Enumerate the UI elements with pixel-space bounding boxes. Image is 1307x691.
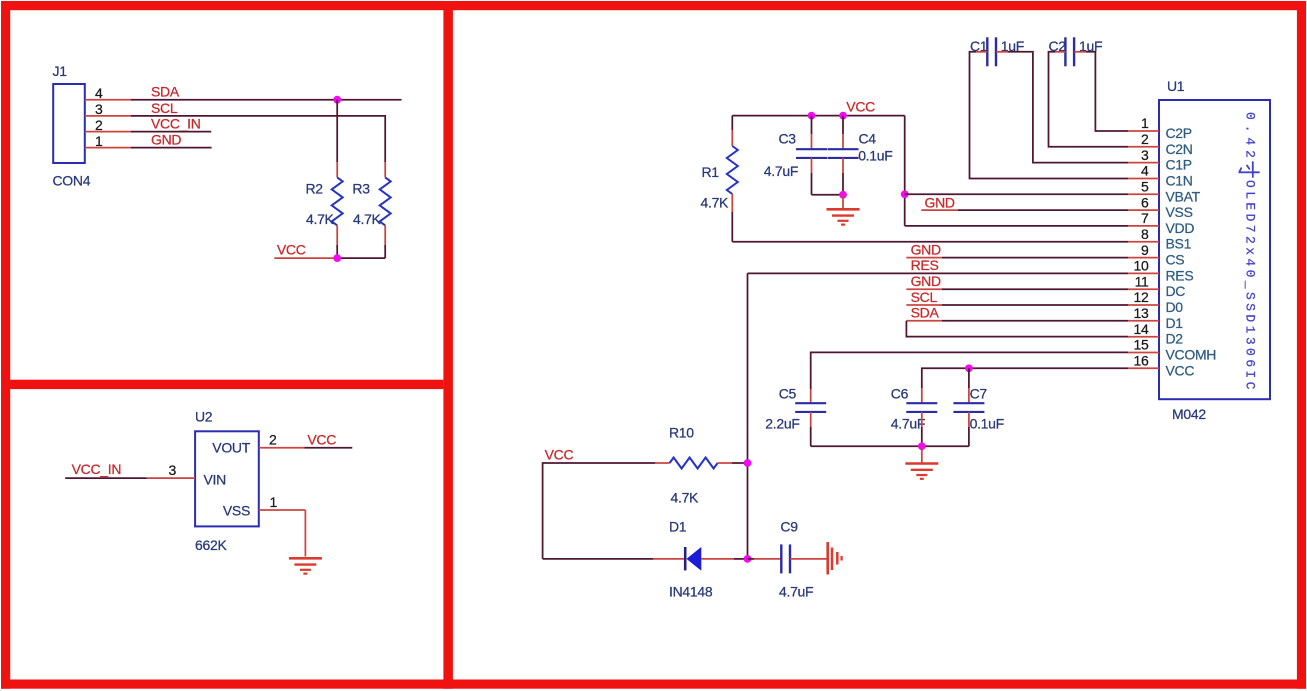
C7 top wire (968, 368, 970, 388)
C1 right wire to pin 3 (996, 51, 1008, 53)
svg-text:C2N: C2N (1166, 141, 1193, 157)
wire D1 to RES node (701, 558, 734, 560)
U1 pin 3 stub (1128, 162, 1159, 164)
svg-text:VDD: VDD (1166, 220, 1195, 236)
svg-text:C3: C3 (779, 131, 797, 147)
chassis ground right of C9 (826, 542, 829, 575)
C6 bottom wire (921, 412, 923, 427)
svg-text:4.7uF: 4.7uF (891, 416, 925, 432)
svg-text:J1: J1 (53, 63, 68, 79)
svg-text:1: 1 (1141, 115, 1149, 131)
J1 pin 3 stub (85, 115, 131, 117)
svg-text:2: 2 (269, 432, 277, 448)
C3 top wire (811, 116, 813, 134)
svg-text:2.2uF: 2.2uF (765, 416, 799, 432)
svg-text:VSS: VSS (223, 503, 250, 519)
C4 top wire (842, 116, 844, 134)
svg-text:VBAT: VBAT (1166, 188, 1201, 204)
svg-text:C1N: C1N (1166, 173, 1193, 189)
svg-text:SCL: SCL (151, 100, 178, 116)
capacitor C7 (953, 402, 984, 404)
svg-text:D2: D2 (1166, 331, 1184, 347)
svg-text:IN4148: IN4148 (669, 584, 713, 600)
resistor R1 (731, 116, 733, 130)
svg-text:1: 1 (95, 133, 103, 149)
wire SDA (131, 99, 402, 101)
wire RES to pin 10 (748, 272, 1129, 274)
wire RES node to C9 (748, 558, 755, 560)
wire R2 branch (336, 100, 338, 162)
wire to pin 5 VBAT (905, 193, 1128, 195)
junction VCC/R2 (333, 254, 341, 262)
capacitor C9 (780, 544, 782, 573)
svg-text:3: 3 (1141, 147, 1149, 163)
svg-text:GND: GND (925, 194, 955, 210)
wire C9 to chassis ground (790, 558, 827, 560)
wire to D1 (543, 558, 653, 560)
junction C6/ground (918, 442, 926, 450)
svg-text:C5: C5 (779, 386, 797, 402)
U2 pin 3 stub (147, 477, 195, 479)
svg-text:4.7K: 4.7K (353, 211, 382, 227)
svg-text:4.7uF: 4.7uF (764, 163, 798, 179)
svg-text:4: 4 (1141, 163, 1149, 179)
svg-text:R3: R3 (352, 181, 370, 197)
diode D1 (684, 547, 687, 570)
wire VCC rail top (732, 115, 904, 117)
svg-text:0.42: 0.42 (1242, 112, 1257, 163)
wire pin 16 VCC to C6 (922, 368, 1128, 388)
capacitor C2 (1064, 37, 1066, 66)
wire GND to pin 6 VSS (921, 209, 958, 211)
wire VCC_IN to VIN (65, 477, 147, 479)
junction VCC/C4 (839, 112, 847, 120)
U1 pin 10 stub (1128, 272, 1159, 274)
svg-text:VCC: VCC (277, 242, 306, 258)
svg-text:C2P: C2P (1166, 125, 1192, 141)
U1 pin 14 stub (1128, 336, 1159, 338)
U2 pin 1 stub (259, 509, 306, 511)
wire VOUT to VCC (305, 447, 353, 449)
wire RES vertical run (747, 273, 749, 559)
svg-text:GND: GND (151, 132, 181, 148)
junction SDA/R2 (333, 96, 341, 104)
capacitor C6 (906, 402, 937, 404)
svg-text:2: 2 (1141, 131, 1149, 147)
svg-text:RES: RES (911, 257, 939, 273)
svg-text:5: 5 (1141, 179, 1149, 195)
U1 pin 1 stub (1128, 130, 1159, 132)
svg-text:16: 16 (1134, 353, 1149, 369)
svg-text:7: 7 (1141, 210, 1149, 226)
wire GND to pin 9 (906, 257, 942, 259)
svg-text:0.1uF: 0.1uF (858, 148, 892, 164)
svg-text:VCOMH: VCOMH (1166, 347, 1217, 363)
capacitor C1 (986, 37, 988, 66)
panel divider vertical (443, 1, 453, 689)
border frame left (1, 1, 10, 689)
ground at U2 (289, 557, 322, 560)
svg-text:D1: D1 (1166, 315, 1184, 331)
C2 right wire to pin 1 (1074, 51, 1086, 53)
U1 pin 6 stub (1128, 209, 1159, 211)
C5 bottom wire (810, 412, 812, 427)
svg-text:4.7uF: 4.7uF (779, 584, 813, 600)
C1 left wire to pin 4 (976, 51, 987, 53)
svg-text:12: 12 (1134, 289, 1149, 305)
svg-text:VCC: VCC (1166, 362, 1195, 378)
border frame bottom (1, 680, 1306, 689)
border frame top (1, 1, 1306, 10)
svg-text:6: 6 (1141, 194, 1149, 210)
J1 pin 2 stub (85, 131, 131, 133)
wire C5-C6-C7 bottom rail (811, 445, 969, 447)
U1 pin 15 stub (1128, 352, 1159, 354)
U1 pin 8 stub (1128, 241, 1159, 243)
svg-text:SDA: SDA (151, 84, 180, 100)
U1 pin 5 stub (1128, 193, 1159, 195)
U1 pin 4 stub (1128, 178, 1159, 180)
svg-text:BS1: BS1 (1166, 236, 1192, 252)
svg-text:C4: C4 (859, 131, 877, 147)
wire VCC branch down (904, 116, 906, 226)
svg-text:4: 4 (95, 85, 103, 101)
U2 pin 2 stub (259, 447, 305, 449)
svg-text:SDA: SDA (911, 305, 940, 321)
svg-text:C7: C7 (970, 386, 988, 402)
svg-text:662K: 662K (195, 537, 227, 553)
svg-text:9: 9 (1141, 242, 1149, 258)
svg-text:C9: C9 (780, 519, 798, 535)
junction pin16 wire / C7 (965, 364, 973, 372)
U1 pin 12 stub (1128, 304, 1159, 306)
ground below C3 C4 (842, 195, 844, 209)
svg-text:C1P: C1P (1166, 157, 1192, 173)
junction VCC/VBAT (901, 190, 909, 198)
ground below C6 (921, 446, 923, 462)
border frame right (1297, 1, 1306, 689)
wire VCC_IN stub (131, 131, 211, 133)
svg-text:15: 15 (1134, 337, 1149, 353)
svg-text:13: 13 (1134, 305, 1149, 321)
svg-text:U2: U2 (195, 409, 213, 425)
wire pin 15 VCOMH to C5 (811, 352, 1128, 389)
svg-text:OLED72x40_SSD1306IC: OLED72x40_SSD1306IC (1242, 180, 1257, 393)
junction VCC/C3 (808, 112, 816, 120)
wire SDA to pin 13 (906, 320, 942, 322)
svg-text:RES: RES (1166, 267, 1194, 283)
svg-text:VCC_IN: VCC_IN (72, 461, 122, 477)
U1 pin 2 stub (1128, 146, 1159, 148)
capacitor C4 (828, 148, 859, 150)
svg-text:D1: D1 (669, 519, 687, 535)
wire SCL to pin 12 (906, 304, 942, 306)
resistor R10 (655, 462, 670, 464)
C2 left wire to pin 2 (1055, 51, 1065, 53)
U1 pin 16 stub (1128, 367, 1159, 369)
svg-text:VOUT: VOUT (212, 440, 250, 456)
svg-text:10: 10 (1134, 258, 1149, 274)
svg-text:4.7K: 4.7K (671, 490, 700, 506)
wire SCL (131, 116, 385, 162)
capacitor C5 (795, 402, 826, 404)
wire VCC to R10 (543, 463, 655, 559)
svg-text:D0: D0 (1166, 299, 1184, 315)
C3 bottom wire (811, 158, 813, 173)
svg-text:VCC: VCC (545, 447, 574, 463)
wire GND stub (131, 147, 212, 149)
panel divider horizontal (1, 380, 443, 389)
U1 pin 9 stub (1128, 257, 1159, 259)
U1 pin 11 stub (1128, 288, 1159, 290)
svg-text:4.7K: 4.7K (306, 211, 335, 227)
junction D1/C9/RES (744, 555, 752, 563)
junction R10/RES (744, 459, 752, 467)
svg-text:1: 1 (270, 494, 278, 510)
svg-text:14: 14 (1134, 321, 1149, 337)
resistor R3 (384, 162, 386, 177)
J1 pin 4 stub (85, 99, 131, 101)
svg-text:R1: R1 (702, 164, 720, 180)
svg-text:3: 3 (169, 462, 177, 478)
svg-text:0.1uF: 0.1uF (970, 416, 1004, 432)
wire GND to pin 11 (906, 288, 942, 290)
J1 pin 1 stub (85, 147, 131, 149)
svg-text:4.7K: 4.7K (701, 195, 730, 211)
svg-text:VCC_IN: VCC_IN (151, 116, 201, 132)
wire R10 to RES node (732, 462, 748, 464)
svg-text:8: 8 (1141, 226, 1149, 242)
wire C3 to C4 bottom (812, 194, 844, 196)
svg-text:VCC: VCC (846, 99, 875, 115)
svg-text:R10: R10 (669, 425, 694, 441)
wire pin 13 to pin 14 tie (906, 321, 1128, 337)
wire VSS to ground (304, 510, 306, 557)
junction C4/ground (839, 191, 847, 199)
svg-text:CON4: CON4 (53, 173, 91, 189)
resistor R2 (336, 162, 338, 177)
OLED module U1 body (1159, 100, 1270, 399)
svg-text:3: 3 (95, 101, 103, 117)
U1 pin 7 stub (1128, 225, 1159, 227)
svg-text:VCC: VCC (307, 432, 336, 448)
C4 bottom wire (842, 158, 844, 173)
svg-text:C6: C6 (891, 386, 909, 402)
svg-text:GND: GND (911, 273, 941, 289)
svg-text:CS: CS (1166, 252, 1185, 268)
svg-text:VSS: VSS (1166, 204, 1193, 220)
U1 pin 13 stub (1128, 320, 1159, 322)
svg-text:SCL: SCL (911, 289, 938, 305)
svg-text:2: 2 (95, 117, 103, 133)
svg-text:U1: U1 (1167, 78, 1185, 94)
regulator U2 body (195, 431, 259, 526)
svg-text:GND: GND (911, 241, 941, 257)
svg-text:R2: R2 (306, 181, 324, 197)
wire R1 to pin 8 BS1 (732, 241, 1128, 243)
connector J1 body (53, 84, 85, 163)
C7 bottom wire (968, 412, 970, 427)
svg-text:11: 11 (1135, 273, 1149, 289)
svg-text:VIN: VIN (204, 472, 226, 488)
wire VCC to resistors (274, 257, 337, 259)
svg-text:M042: M042 (1172, 406, 1206, 422)
wire to pin 7 VDD (905, 225, 1128, 227)
capacitor C3 (796, 148, 827, 150)
svg-text:DC: DC (1166, 283, 1186, 299)
